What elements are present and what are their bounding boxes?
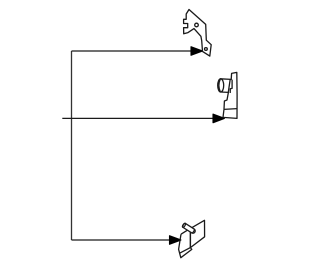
- bracket part 3 stud cylinder: [183, 223, 196, 233]
- bracket part 3 front flange: [179, 234, 192, 258]
- bracket part 3 bottom lip top edge: [180, 248, 191, 254]
- leader vertical line: [71, 51, 73, 240]
- bracket part 1 flange hole: [205, 48, 208, 51]
- clip part 2 boss face ellipse: [218, 79, 224, 92]
- top leader arrow line: [72, 50, 193, 52]
- clip part 2 boss/body boundary: [228, 79, 230, 92]
- middle leader arrow line: [62, 117, 214, 119]
- bracket part 1 outline (top): [184, 10, 212, 57]
- clip part 2 inner fold line: [230, 80, 232, 93]
- bottom leader arrow line: [72, 239, 171, 241]
- bracket part 1 plate hole: [195, 23, 199, 27]
- clip part 2 foot fold line: [224, 108, 237, 111]
- bottom arrowhead: [170, 236, 181, 244]
- bracket part 3 (bottom) plate: [181, 220, 205, 247]
- clip part 2 outline (middle): [219, 72, 237, 118]
- bracket part 3 stud far rim: [192, 229, 195, 233]
- bracket part 3 fold line: [189, 228, 191, 247]
- middle arrowhead: [213, 114, 224, 122]
- top arrowhead: [191, 47, 202, 55]
- bracket part 3 stud end cap: [182, 223, 186, 228]
